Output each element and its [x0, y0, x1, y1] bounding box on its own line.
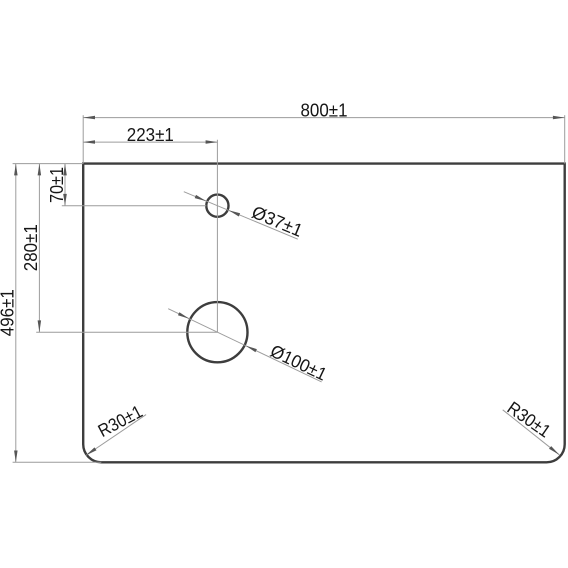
- extension line horizontal small hole (70): [62, 205, 207, 207]
- dimension 70 line: [64, 164, 66, 206]
- svg-text:R30±1: R30±1: [95, 401, 146, 441]
- dimension 70 arrow top: [63, 164, 67, 176]
- svg-text:Ø100±1: Ø100±1: [267, 341, 330, 385]
- svg-text:70±1: 70±1: [47, 167, 67, 203]
- dimension 223 arrow left: [83, 140, 95, 144]
- dimension 223 arrow right: [206, 140, 218, 144]
- dimension 280 arrow top: [38, 164, 42, 176]
- leader D100 arrow upper: [178, 312, 189, 319]
- leader D37 arrow lower: [229, 210, 241, 216]
- centerline vertical through holes: [216, 140, 218, 332]
- leader line R30 right: [503, 410, 560, 455]
- leader D100 arrow lower: [246, 346, 257, 353]
- svg-text:223±1: 223±1: [127, 125, 174, 145]
- dimension 70 arrow bottom: [63, 194, 67, 206]
- hole D37: [206, 195, 228, 217]
- dimension 496 line: [15, 164, 17, 463]
- plate outline: [83, 164, 565, 463]
- extension line left edge above plate: [82, 115, 84, 163]
- svg-text:280±1: 280±1: [21, 224, 41, 271]
- extension line horizontal big hole (280): [36, 331, 217, 333]
- leader R30 right arrow: [549, 446, 559, 455]
- dimension 280 arrow bottom: [38, 320, 42, 332]
- svg-text:800±1: 800±1: [301, 100, 348, 120]
- dimension 280 line: [38, 164, 40, 333]
- extension line right edge above plate: [564, 115, 566, 163]
- dimension 800 arrow left: [83, 116, 95, 120]
- dimension 496 arrow bottom: [14, 451, 18, 463]
- leader D37 arrow upper: [195, 195, 207, 201]
- dimension 800 line: [83, 117, 565, 119]
- dimension 800 arrow right: [553, 116, 565, 120]
- leader line D100: [168, 309, 321, 382]
- svg-text:Ø37±1: Ø37±1: [249, 202, 306, 241]
- leader R30 left arrow: [86, 447, 97, 455]
- hole D100: [187, 302, 247, 362]
- dimension 223 line: [83, 141, 217, 143]
- svg-text:496±1: 496±1: [0, 289, 18, 336]
- svg-text:R30±1: R30±1: [504, 398, 555, 442]
- leader line R30 left: [86, 415, 146, 456]
- dimension 496 arrow top: [14, 164, 18, 176]
- extension line bottom-left for 496: [13, 461, 102, 463]
- extension line top-left shared: [13, 163, 84, 165]
- leader line D37: [184, 192, 298, 240]
